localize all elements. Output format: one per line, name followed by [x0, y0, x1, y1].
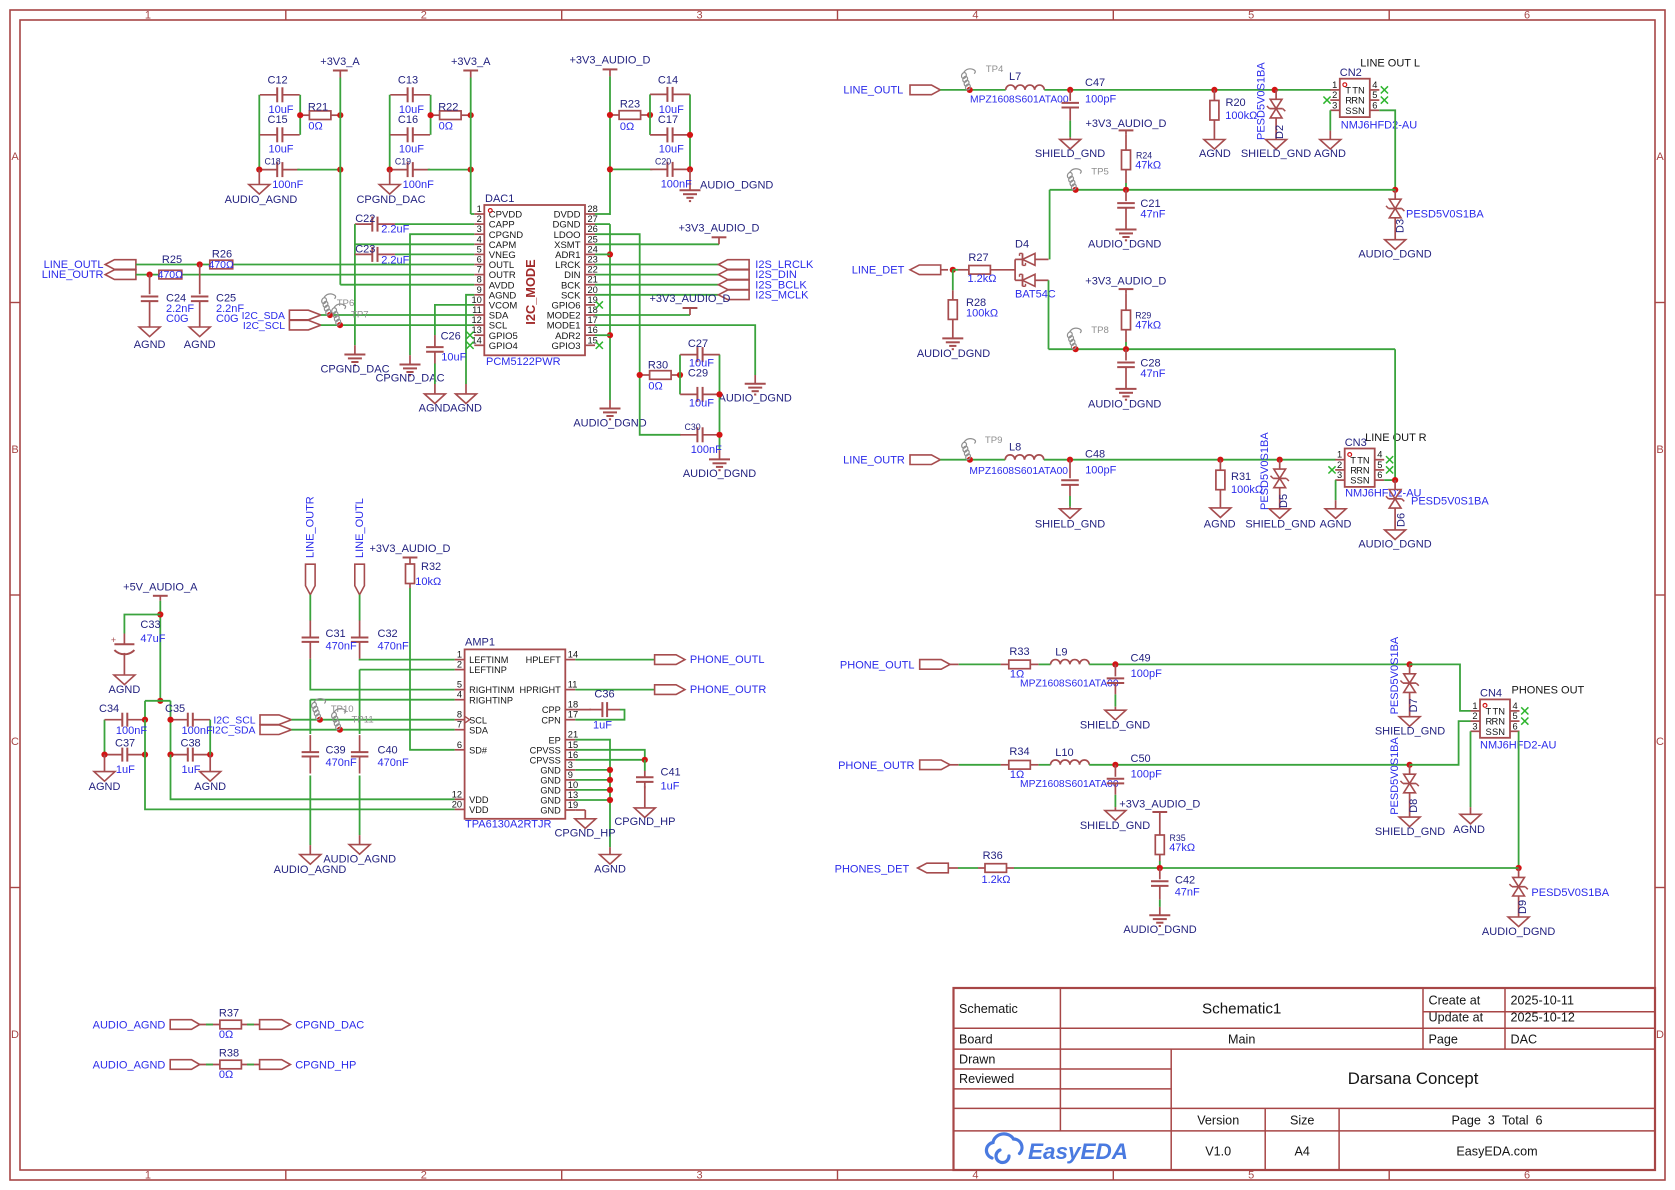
svg-text:LEFTINP: LEFTINP [469, 665, 507, 675]
svg-text:+3V3_AUDIO_D: +3V3_AUDIO_D [569, 55, 650, 67]
svg-text:C47: C47 [1085, 77, 1105, 89]
svg-text:11: 11 [472, 305, 482, 315]
svg-text:AUDIO_AGND: AUDIO_AGND [274, 864, 347, 876]
svg-text:SN: SN [1357, 475, 1370, 486]
svg-text:SHIELD_GND: SHIELD_GND [1035, 518, 1105, 530]
svg-text:EasyEDA.com: EasyEDA.com [1456, 1145, 1537, 1159]
svg-text:R32: R32 [421, 561, 441, 573]
svg-text:20: 20 [452, 799, 462, 809]
svg-text:PHONE_OUTR: PHONE_OUTR [690, 684, 766, 696]
svg-text:Reviewed: Reviewed [959, 1072, 1014, 1086]
svg-text:3: 3 [1472, 721, 1477, 731]
svg-text:2: 2 [1337, 460, 1342, 470]
svg-text:1uF: 1uF [661, 781, 680, 793]
svg-text:D8: D8 [1408, 799, 1420, 813]
svg-text:15: 15 [588, 335, 598, 345]
svg-text:PESD5V0S1BA: PESD5V0S1BA [1259, 432, 1271, 510]
svg-text:C41: C41 [661, 767, 681, 779]
svg-text:AGND: AGND [450, 403, 482, 415]
svg-text:24: 24 [588, 244, 598, 254]
svg-text:14: 14 [568, 650, 578, 660]
svg-text:CPGND_DAC: CPGND_DAC [356, 194, 425, 206]
svg-text:C15: C15 [268, 114, 288, 126]
svg-text:AUDIO_DGND: AUDIO_DGND [1358, 248, 1431, 260]
svg-text:470nF: 470nF [378, 757, 409, 769]
svg-text:9: 9 [477, 285, 482, 295]
svg-text:21: 21 [588, 275, 598, 285]
svg-text:5: 5 [1248, 1170, 1254, 1182]
svg-text:6: 6 [1377, 470, 1382, 480]
svg-text:Drawn: Drawn [959, 1052, 995, 1066]
svg-text:10kΩ: 10kΩ [415, 576, 441, 588]
svg-text:100kΩ: 100kΩ [966, 308, 998, 320]
svg-text:C27: C27 [688, 338, 708, 350]
svg-text:4: 4 [457, 690, 462, 700]
svg-text:LINE_OUTR: LINE_OUTR [305, 496, 317, 558]
svg-text:TP8: TP8 [1091, 325, 1109, 336]
svg-text:2025-10-11: 2025-10-11 [1511, 994, 1575, 1008]
svg-text:C22: C22 [355, 213, 375, 225]
svg-text:+3V3_A: +3V3_A [451, 56, 491, 68]
svg-text:TP10: TP10 [331, 704, 354, 715]
svg-text:2: 2 [421, 9, 427, 21]
svg-text:SHIELD_GND: SHIELD_GND [1245, 518, 1315, 530]
svg-text:C31: C31 [326, 628, 346, 640]
svg-text:8: 8 [477, 275, 482, 285]
svg-text:Darsana Concept: Darsana Concept [1348, 1069, 1479, 1088]
svg-text:D: D [11, 1029, 19, 1041]
svg-text:S: S [1486, 726, 1492, 737]
svg-text:3: 3 [697, 9, 703, 21]
svg-text:10uF: 10uF [659, 144, 684, 156]
svg-text:4: 4 [1372, 80, 1377, 90]
svg-text:4: 4 [972, 1170, 978, 1182]
svg-text:3: 3 [477, 224, 482, 234]
svg-text:GPIO4: GPIO4 [489, 341, 518, 352]
svg-text:+3V3_A: +3V3_A [320, 56, 360, 68]
svg-text:4: 4 [972, 9, 978, 21]
svg-text:C13: C13 [398, 75, 418, 87]
svg-text:AUDIO_DGND: AUDIO_DGND [1358, 538, 1431, 550]
svg-text:2: 2 [1472, 711, 1477, 721]
svg-text:100nF: 100nF [116, 725, 147, 737]
svg-text:L8: L8 [1009, 442, 1021, 454]
svg-text:C50: C50 [1131, 753, 1151, 765]
svg-text:0Ω: 0Ω [308, 121, 322, 133]
svg-text:100pF: 100pF [1131, 668, 1162, 680]
svg-text:6: 6 [1524, 9, 1530, 21]
svg-text:HPRIGHT: HPRIGHT [519, 685, 561, 695]
svg-text:TP11: TP11 [352, 715, 374, 726]
svg-text:C23: C23 [355, 243, 375, 255]
svg-text:R30: R30 [648, 360, 668, 372]
svg-text:0Ω: 0Ω [219, 1069, 233, 1081]
svg-text:LINE OUT L: LINE OUT L [1360, 58, 1420, 70]
svg-text:LINE_OUTL: LINE_OUTL [354, 498, 366, 558]
svg-text:GND: GND [540, 766, 561, 776]
svg-text:23: 23 [588, 255, 598, 265]
svg-text:AGND: AGND [1199, 148, 1231, 160]
svg-text:Create at: Create at [1429, 994, 1481, 1008]
svg-text:C32: C32 [378, 628, 398, 640]
svg-text:GND: GND [540, 806, 561, 816]
svg-text:AGND: AGND [1314, 148, 1346, 160]
svg-text:TP4: TP4 [986, 64, 1004, 75]
svg-text:100nF: 100nF [182, 725, 213, 737]
svg-text:S: S [1345, 105, 1351, 116]
svg-text:AUDIO_DGND: AUDIO_DGND [683, 468, 756, 480]
svg-text:SHIELD_GND: SHIELD_GND [1080, 720, 1150, 732]
svg-text:4: 4 [1513, 701, 1518, 711]
svg-text:C30: C30 [685, 422, 701, 432]
svg-text:A: A [11, 151, 19, 163]
svg-text:3: 3 [568, 760, 573, 770]
svg-text:PHONE_OUTL: PHONE_OUTL [840, 659, 915, 671]
svg-text:7: 7 [477, 265, 482, 275]
svg-text:AGND: AGND [1320, 518, 1352, 530]
svg-text:6: 6 [477, 255, 482, 265]
svg-text:R31: R31 [1231, 471, 1251, 483]
svg-text:AUDIO_DGND: AUDIO_DGND [700, 180, 773, 192]
svg-text:+3V3_AUDIO_D: +3V3_AUDIO_D [369, 543, 450, 555]
svg-text:LINE_OUTR: LINE_OUTR [42, 269, 104, 281]
svg-text:9: 9 [568, 770, 573, 780]
svg-text:6: 6 [1513, 721, 1518, 731]
svg-text:B: B [1656, 444, 1663, 456]
svg-text:10uF: 10uF [441, 351, 466, 363]
svg-text:C40: C40 [378, 745, 398, 757]
svg-text:SHIELD_GND: SHIELD_GND [1375, 725, 1445, 737]
svg-text:AUDIO_DGND: AUDIO_DGND [719, 393, 792, 405]
svg-text:4: 4 [1377, 450, 1382, 460]
svg-text:6: 6 [1524, 1170, 1530, 1182]
svg-text:13: 13 [471, 325, 481, 335]
svg-text:TP9: TP9 [985, 435, 1003, 446]
svg-text:AGND: AGND [594, 863, 626, 875]
svg-text:AUDIO_DGND: AUDIO_DGND [1482, 926, 1555, 938]
svg-text:SN: SN [1492, 726, 1505, 737]
svg-text:47kΩ: 47kΩ [1135, 319, 1161, 331]
svg-text:LINE_OUTL: LINE_OUTL [843, 84, 903, 96]
svg-text:SHIELD_GND: SHIELD_GND [1241, 148, 1311, 160]
svg-text:470nF: 470nF [378, 641, 409, 653]
svg-text:17: 17 [588, 315, 598, 325]
svg-text:PESD5V0S1BA: PESD5V0S1BA [1256, 62, 1268, 140]
svg-text:10uF: 10uF [399, 144, 424, 156]
svg-text:1: 1 [477, 204, 482, 214]
svg-text:AUDIO_DGND: AUDIO_DGND [573, 418, 646, 430]
svg-text:17: 17 [568, 710, 578, 720]
svg-text:1: 1 [1332, 80, 1337, 90]
svg-text:CN4: CN4 [1480, 688, 1502, 700]
svg-text:PESD5V0S1BA: PESD5V0S1BA [1411, 496, 1489, 508]
svg-text:AUDIO_DGND: AUDIO_DGND [1088, 238, 1161, 250]
svg-text:SN: SN [1352, 105, 1365, 116]
svg-text:1.2kΩ: 1.2kΩ [981, 874, 1010, 886]
svg-text:C37: C37 [115, 738, 135, 750]
svg-text:C48: C48 [1085, 449, 1105, 461]
svg-text:0Ω: 0Ω [439, 121, 453, 133]
svg-text:R25: R25 [162, 254, 182, 266]
svg-text:C42: C42 [1175, 875, 1195, 887]
svg-text:2.2uF: 2.2uF [381, 224, 409, 236]
svg-text:47nF: 47nF [1140, 209, 1165, 221]
svg-text:CN2: CN2 [1340, 67, 1362, 79]
svg-text:R33: R33 [1009, 646, 1029, 658]
svg-text:C38: C38 [181, 738, 201, 750]
svg-text:0Ω: 0Ω [219, 1029, 233, 1041]
svg-text:R27: R27 [968, 252, 988, 264]
svg-text:GND: GND [540, 786, 561, 796]
svg-text:AGND: AGND [184, 339, 216, 351]
svg-text:R22: R22 [438, 102, 458, 114]
svg-text:10uF: 10uF [268, 144, 293, 156]
svg-text:1: 1 [1472, 701, 1477, 711]
svg-text:21: 21 [568, 730, 578, 740]
svg-text:PHONES_DET: PHONES_DET [835, 863, 910, 875]
svg-text:AGND: AGND [109, 684, 141, 696]
svg-text:100pF: 100pF [1131, 768, 1162, 780]
svg-text:1: 1 [1337, 450, 1342, 460]
svg-text:14: 14 [471, 335, 481, 345]
svg-text:C20: C20 [655, 157, 671, 167]
svg-text:CPN: CPN [541, 715, 560, 725]
svg-text:10uF: 10uF [689, 397, 714, 409]
svg-text:SCL: SCL [469, 715, 487, 725]
svg-text:C49: C49 [1131, 653, 1151, 665]
svg-text:22: 22 [588, 265, 598, 275]
svg-text:LINE_DET: LINE_DET [852, 264, 905, 276]
svg-text:RIGHTINM: RIGHTINM [469, 685, 514, 695]
svg-text:2: 2 [1332, 90, 1337, 100]
svg-text:18: 18 [568, 700, 578, 710]
svg-text:100kΩ: 100kΩ [1225, 110, 1257, 122]
svg-text:18: 18 [588, 305, 598, 315]
svg-text:AGND: AGND [1204, 518, 1236, 530]
svg-text:V1.0: V1.0 [1205, 1145, 1231, 1159]
svg-text:PESD5V0S1BA: PESD5V0S1BA [1406, 209, 1484, 221]
svg-text:AUDIO_AGND: AUDIO_AGND [225, 194, 298, 206]
svg-text:C39: C39 [326, 745, 346, 757]
svg-text:L10: L10 [1055, 747, 1073, 759]
svg-text:GND: GND [540, 776, 561, 786]
svg-text:PHONE_OUTR: PHONE_OUTR [838, 760, 914, 772]
svg-text:6: 6 [1372, 100, 1377, 110]
svg-text:B: B [11, 444, 18, 456]
svg-text:C26: C26 [441, 330, 461, 342]
svg-text:100nF: 100nF [691, 444, 722, 456]
svg-text:11: 11 [568, 680, 578, 690]
svg-text:+3V3_AUDIO_D: +3V3_AUDIO_D [1119, 798, 1200, 810]
svg-text:47nF: 47nF [1140, 368, 1165, 380]
svg-text:A: A [1656, 151, 1664, 163]
svg-text:2: 2 [421, 1170, 427, 1182]
svg-text:CPGND_DAC: CPGND_DAC [295, 1020, 364, 1032]
svg-text:TP7: TP7 [351, 310, 369, 321]
svg-text:CPVSS: CPVSS [530, 755, 561, 765]
svg-text:C18: C18 [265, 157, 281, 167]
svg-text:R21: R21 [308, 102, 328, 114]
svg-text:CPP: CPP [542, 705, 561, 715]
svg-text:PHONES OUT: PHONES OUT [1512, 685, 1585, 697]
svg-text:26: 26 [588, 224, 598, 234]
svg-text:C17: C17 [658, 114, 678, 126]
svg-text:3: 3 [697, 1170, 703, 1182]
svg-text:AUDIO_DGND: AUDIO_DGND [1123, 924, 1196, 936]
svg-text:MPZ1608S601ATA00: MPZ1608S601ATA00 [1020, 679, 1119, 690]
svg-text:DAC: DAC [1511, 1032, 1538, 1046]
svg-text:MPZ1608S601ATA00: MPZ1608S601ATA00 [970, 95, 1069, 106]
svg-text:VDD: VDD [469, 805, 489, 815]
svg-text:PESD5V0S1BA: PESD5V0S1BA [1389, 636, 1401, 714]
svg-text:100nF: 100nF [272, 179, 303, 191]
svg-text:+3V3_AUDIO_D: +3V3_AUDIO_D [649, 293, 730, 305]
svg-text:R23: R23 [620, 99, 640, 111]
svg-text:A4: A4 [1294, 1145, 1309, 1159]
svg-text:+3V3_AUDIO_D: +3V3_AUDIO_D [1085, 276, 1166, 288]
svg-text:C34: C34 [99, 703, 119, 715]
svg-text:SDA: SDA [469, 725, 489, 735]
svg-text:AUDIO_AGND: AUDIO_AGND [323, 854, 396, 866]
svg-text:28: 28 [588, 204, 598, 214]
svg-text:AGND: AGND [419, 403, 451, 415]
svg-text:SHIELD_GND: SHIELD_GND [1375, 826, 1445, 838]
svg-text:MPZ1608S601ATA00: MPZ1608S601ATA00 [1020, 779, 1119, 790]
svg-text:27: 27 [588, 214, 598, 224]
svg-text:EasyEDA: EasyEDA [1028, 1139, 1128, 1164]
svg-text:Page: Page [1429, 1032, 1458, 1046]
svg-text:5: 5 [1372, 90, 1377, 100]
svg-text:AUDIO_AGND: AUDIO_AGND [93, 1020, 166, 1032]
svg-text:C14: C14 [658, 75, 678, 87]
svg-text:D4: D4 [1015, 239, 1029, 251]
svg-text:470Ω: 470Ω [158, 269, 184, 281]
svg-text:1uF: 1uF [182, 764, 201, 776]
svg-text:16: 16 [588, 325, 598, 335]
svg-text:7: 7 [457, 720, 462, 730]
svg-text:100nF: 100nF [403, 179, 434, 191]
svg-text:RIGHTINP: RIGHTINP [469, 695, 513, 705]
svg-text:1uF: 1uF [116, 764, 135, 776]
svg-text:6: 6 [457, 740, 462, 750]
svg-text:12: 12 [452, 789, 462, 799]
svg-text:+: + [111, 635, 116, 645]
svg-text:1: 1 [145, 9, 151, 21]
svg-text:0Ω: 0Ω [648, 381, 662, 393]
svg-text:47kΩ: 47kΩ [1135, 159, 1161, 171]
svg-text:1: 1 [145, 1170, 151, 1182]
svg-text:D9: D9 [1517, 900, 1529, 914]
svg-text:+3V3_AUDIO_D: +3V3_AUDIO_D [678, 223, 759, 235]
svg-text:0Ω: 0Ω [620, 121, 634, 133]
svg-text:D5: D5 [1278, 494, 1290, 508]
svg-text:+3V3_AUDIO_D: +3V3_AUDIO_D [1085, 118, 1166, 130]
svg-text:20: 20 [588, 285, 598, 295]
svg-text:470Ω: 470Ω [209, 259, 235, 271]
svg-text:Schematic1: Schematic1 [1202, 1001, 1281, 1018]
svg-text:5: 5 [1248, 9, 1254, 21]
svg-text:GND: GND [540, 796, 561, 806]
svg-text:5: 5 [457, 680, 462, 690]
svg-text:R37: R37 [219, 1008, 239, 1020]
svg-text:PESD5V0S1BA: PESD5V0S1BA [1531, 887, 1609, 899]
svg-text:CPGND_HP: CPGND_HP [554, 827, 615, 839]
svg-text:I2C_MODE: I2C_MODE [523, 259, 538, 325]
svg-text:C12: C12 [268, 75, 288, 87]
svg-text:8: 8 [457, 710, 462, 720]
svg-text:R20: R20 [1226, 97, 1246, 109]
svg-text:D: D [1656, 1029, 1664, 1041]
svg-text:1: 1 [457, 650, 462, 660]
svg-text:CN3: CN3 [1345, 437, 1367, 449]
svg-text:12: 12 [471, 315, 481, 325]
svg-text:S: S [1350, 475, 1356, 486]
svg-text:47nF: 47nF [1175, 887, 1200, 899]
svg-text:AUDIO_AGND: AUDIO_AGND [93, 1060, 166, 1072]
svg-text:5: 5 [477, 244, 482, 254]
svg-text:D2: D2 [1274, 125, 1286, 139]
svg-text:470nF: 470nF [326, 757, 357, 769]
svg-text:PESD5V0S1BA: PESD5V0S1BA [1389, 736, 1401, 814]
svg-text:25: 25 [588, 234, 598, 244]
svg-text:AMP1: AMP1 [465, 637, 495, 649]
svg-text:L7: L7 [1009, 71, 1021, 83]
svg-text:19: 19 [588, 295, 598, 305]
svg-text:10: 10 [471, 295, 481, 305]
svg-text:1uF: 1uF [593, 719, 612, 731]
svg-text:AGND: AGND [1453, 824, 1485, 836]
svg-text:D6: D6 [1396, 513, 1408, 527]
svg-text:C19: C19 [395, 157, 411, 167]
svg-text:2025-10-12: 2025-10-12 [1511, 1011, 1575, 1025]
svg-text:SD#: SD# [469, 745, 488, 755]
svg-text:R36: R36 [983, 850, 1003, 862]
svg-text:470nF: 470nF [326, 641, 357, 653]
svg-text:AUDIO_DGND: AUDIO_DGND [1088, 398, 1161, 410]
svg-text:+5V_AUDIO_A: +5V_AUDIO_A [123, 581, 198, 593]
svg-text:GPIO3: GPIO3 [551, 341, 580, 352]
svg-text:DAC1: DAC1 [485, 193, 514, 205]
svg-text:2: 2 [477, 214, 482, 224]
svg-text:SHIELD_GND: SHIELD_GND [1035, 148, 1105, 160]
svg-text:10: 10 [568, 780, 578, 790]
svg-text:HPLEFT: HPLEFT [526, 655, 562, 665]
svg-text:Size: Size [1290, 1114, 1315, 1128]
svg-text:C0G: C0G [216, 313, 239, 325]
svg-text:C35: C35 [165, 703, 185, 715]
svg-text:SHIELD_GND: SHIELD_GND [1080, 820, 1150, 832]
svg-text:47uF: 47uF [140, 633, 165, 645]
svg-text:Page 3 Total 6: Page 3 Total 6 [1451, 1114, 1542, 1128]
svg-text:TP5: TP5 [1091, 167, 1109, 178]
svg-text:19: 19 [568, 800, 578, 810]
svg-text:100nF: 100nF [661, 179, 692, 191]
svg-text:L9: L9 [1055, 647, 1067, 659]
svg-text:16: 16 [568, 750, 578, 760]
svg-text:AGND: AGND [89, 781, 121, 793]
svg-text:CPGND_HP: CPGND_HP [614, 816, 675, 828]
svg-text:C33: C33 [140, 619, 160, 631]
svg-text:4: 4 [477, 234, 482, 244]
svg-text:5: 5 [1513, 711, 1518, 721]
svg-text:LEFTINM: LEFTINM [469, 655, 508, 665]
svg-text:5: 5 [1377, 460, 1382, 470]
svg-text:CPVSS: CPVSS [530, 745, 561, 755]
svg-text:Update at: Update at [1429, 1011, 1484, 1025]
svg-text:2: 2 [457, 660, 462, 670]
svg-text:EP: EP [549, 735, 561, 745]
svg-text:Schematic: Schematic [959, 1002, 1018, 1016]
